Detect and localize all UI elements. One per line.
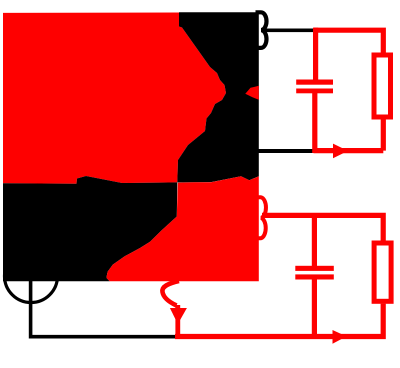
resistor R2 : bottom circuit — [374, 243, 391, 301]
wire : red top circuit outer loop — [314, 30, 384, 150]
resistor R1 : top circuit — [374, 55, 391, 117]
arrow : downward arrowhead on squiggle — [170, 308, 187, 324]
node C : bottom-left black region — [3, 176, 177, 281]
wire : red stem to bottom wire — [175, 305, 180, 339]
arrow : current direction bottom circuit — [333, 330, 347, 344]
capacitor C2 : bottom circuit — [295, 213, 334, 339]
wire : red squiggle lead from secondary blob — [162, 281, 179, 306]
wire : black vertical + bottom horizontal return wire — [31, 278, 177, 337]
node E : red tongue poking through black region — [245, 86, 258, 100]
arrow : current direction top circuit — [333, 144, 348, 159]
circle (source symbol, bottom arc visible) — [5, 250, 58, 303]
inductor L2 : red brace coil at bottom — [256, 197, 266, 238]
node B : top-right black region (core blob) — [177, 12, 258, 182]
wire : black lower wire of top circuit — [258, 149, 316, 153]
inductor L1 : black brace coil at top — [256, 12, 267, 48]
node A : top-left red region (primary winding blob) — [3, 13, 226, 184]
wire : black top wire to node — [262, 29, 316, 33]
wire : red bottom circuit outer loop — [175, 215, 383, 336]
capacitor C1 : top circuit — [296, 28, 333, 153]
node D : bottom-right red region (secondary winding blob) — [106, 176, 258, 281]
